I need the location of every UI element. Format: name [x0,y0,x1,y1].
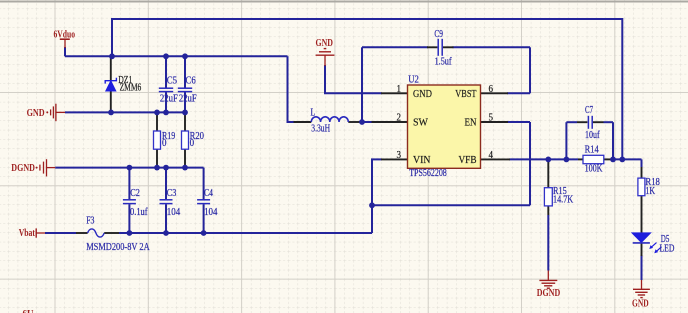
wire LED to GND [641,255,643,280]
pin R19 top/bottom [156,112,158,131]
pin U2-4 [481,158,511,160]
pin U2-2 [372,121,408,123]
resistor R15 [544,188,552,206]
node R19 top [154,110,160,116]
wire SW node to pin 2 [359,121,372,123]
wire Vbat rail right of fuse [119,232,372,234]
wire C4 top lead [203,168,205,200]
node C4 bottom [201,230,207,236]
svg-text:C2: C2 [130,188,140,199]
node C2 bottom [126,230,132,236]
svg-text:C3: C3 [167,188,177,199]
node C3 top [163,165,169,171]
pin R15 leads [547,159,549,187]
node C7 right [610,157,616,163]
power port GND top (inverted earth) [316,49,335,66]
wire C9 right horizontal [453,46,531,48]
svg-text:0.1uf: 0.1uf [130,207,148,218]
wire DGND rail [55,167,203,169]
wire C7 left horizontal [566,121,577,123]
svg-text:3.3uH: 3.3uH [311,124,330,135]
svg-text:22uF: 22uF [160,93,178,104]
svg-text:C9: C9 [434,29,443,40]
wire EN to VIN node [372,204,530,206]
svg-text:C7: C7 [585,105,593,116]
power port 6Vduo [60,39,70,48]
svg-text:GND: GND [316,38,334,49]
svg-text:L: L [311,108,316,119]
pin C9 leads [427,46,437,48]
capacitor C4 plates [197,200,210,204]
pin U2-3 [381,158,408,160]
wire C7 right horizontal [604,121,614,123]
wire C6 leads [184,56,186,88]
capacitor C7 plates [588,116,592,129]
wire 6V output rail [65,55,288,57]
wire C7 right riser [612,122,614,159]
resistor R20 [182,131,189,149]
capacitor C5 plates [159,88,173,91]
wire pin5 EN [507,121,530,123]
wire GND rail left [65,111,185,113]
node C6 top [182,53,188,59]
node C3 bottom [163,230,169,236]
pin D5 cathode lead [641,243,643,256]
svg-text:0: 0 [162,138,167,149]
svg-text:14.7K: 14.7K [553,195,574,206]
wire C5 leads [165,56,167,88]
wire GND to pin 1 [324,65,326,93]
node zener anode [108,110,114,116]
svg-text:0: 0 [190,138,195,149]
sheet border top [0,1,688,3]
svg-text:DGND: DGND [537,288,560,299]
node top rail riser [619,157,625,163]
pin R18 leads [641,167,643,178]
capacitor C9 plates [438,39,442,56]
svg-text:104: 104 [167,207,180,218]
node R15 top [545,157,551,163]
svg-text:VBST: VBST [455,88,476,100]
wire R14 right to R18 corner [611,158,642,160]
node C2 top [126,165,132,171]
svg-text:GND: GND [632,299,649,310]
node C5 top [163,53,169,59]
svg-text:U2: U2 [408,75,419,86]
wire C9 right riser to pin 6 [529,47,531,93]
capacitor C6 plates [178,88,192,91]
svg-text:5: 5 [489,113,494,124]
svg-text:R14: R14 [585,144,599,155]
power port DGND bottom (earth) [539,271,557,289]
wire C7 left riser [565,122,567,159]
node 6V/zener top [109,53,115,59]
wire pin6 to C9 [507,92,530,94]
svg-text:4: 4 [489,150,494,161]
wire C4 bottom lead [203,204,205,233]
wire riser right of top rail to VFB node [621,18,623,159]
pin L left [294,121,312,123]
svg-text:104: 104 [204,207,217,218]
svg-text:SW: SW [413,117,429,129]
svg-text:22uF: 22uF [179,93,197,104]
pin F3 leads [76,232,88,234]
resistor R19 [154,131,161,149]
svg-text:C4: C4 [204,188,213,199]
resistor R18 [638,178,645,196]
wire pin4 VFB [509,158,578,160]
wire R15 to DGND [547,215,549,271]
fuse F3 squiggle [88,229,105,237]
svg-text:DGND: DGND [11,163,35,174]
node C6 bottom / R20 top [182,110,188,116]
svg-text:Vbat: Vbat [19,228,36,239]
wire pin1 horizontal [324,92,382,94]
svg-text:VIN: VIN [413,154,431,166]
svg-text:C6: C6 [186,75,196,86]
pin C7 leads [577,121,587,123]
wire C2 leads [128,168,130,200]
svg-text:6: 6 [489,84,494,95]
svg-text:10uf: 10uf [585,130,600,141]
node SW junction [359,119,365,125]
LED D5 triangle and cathode [632,233,662,253]
svg-text:C5: C5 [167,75,177,86]
svg-text:MSMD200-8V 2A: MSMD200-8V 2A [86,242,150,253]
svg-text:100K: 100K [585,164,604,175]
wire 6Vduo stem [64,47,66,56]
pin DZ1 cathode [110,56,112,80]
wire R18 corner down [641,159,643,167]
pin U2-5 [481,121,509,123]
IC U2 TPS562208 body [408,85,481,168]
svg-text:3: 3 [397,150,402,161]
power port Vbat [36,228,45,237]
pin R20 top/bottom [184,112,186,131]
wire riser left of top rail [111,18,113,56]
resistor R14 (horizontal) [583,155,604,163]
svg-text:LED: LED [660,244,675,255]
wire C3 leads [165,168,167,200]
svg-text:2: 2 [397,113,402,124]
node C5 bottom [163,110,169,116]
node R20 bottom [182,165,188,171]
wire C9 left horizontal [362,46,428,48]
power port GND left (bar style) [46,104,65,122]
node C7 left [564,157,570,163]
LED arrows [650,243,661,253]
svg-text:GND: GND [413,88,432,100]
pin R14 leads [578,158,583,160]
wire VIN riser to Vbat rail [371,159,373,233]
inductor L arcs [311,117,348,122]
svg-text:1K: 1K [645,186,655,197]
capacitor C2 plates [123,200,136,204]
svg-text:EN: EN [465,117,477,129]
zener diode DZ1 [105,78,116,91]
svg-text:F3: F3 [86,216,94,227]
svg-text:TPS562208: TPS562208 [409,168,447,179]
pin DZ1 anode [110,91,112,112]
wire pin3 VIN horizontal [371,158,382,160]
pin U2-6 [481,92,509,94]
pin L right [348,121,359,123]
wire Vbat rail left of fuse [45,232,76,234]
power port DGND left (bar style) [36,159,56,176]
svg-text:ZMM6: ZMM6 [120,83,142,94]
svg-text:1: 1 [397,84,402,95]
svg-text:GND: GND [27,108,45,119]
svg-text:1.5uf: 1.5uf [435,56,453,67]
wire EN riser down [529,122,531,205]
power port GND bottom (earth) [633,280,650,298]
capacitor C3 plates [160,200,173,204]
svg-text:VFB: VFB [459,154,477,166]
svg-text:6Vduo: 6Vduo [54,29,76,40]
wire rail down to inductor [288,56,294,122]
svg-text:6U: 6U [23,309,34,313]
pin U2-1 [381,92,408,94]
wire top feedback rail [111,18,623,20]
wire C9 left riser to SW [361,47,363,122]
node VIN/EN junction [369,202,375,208]
node R19 bottom [154,165,160,171]
